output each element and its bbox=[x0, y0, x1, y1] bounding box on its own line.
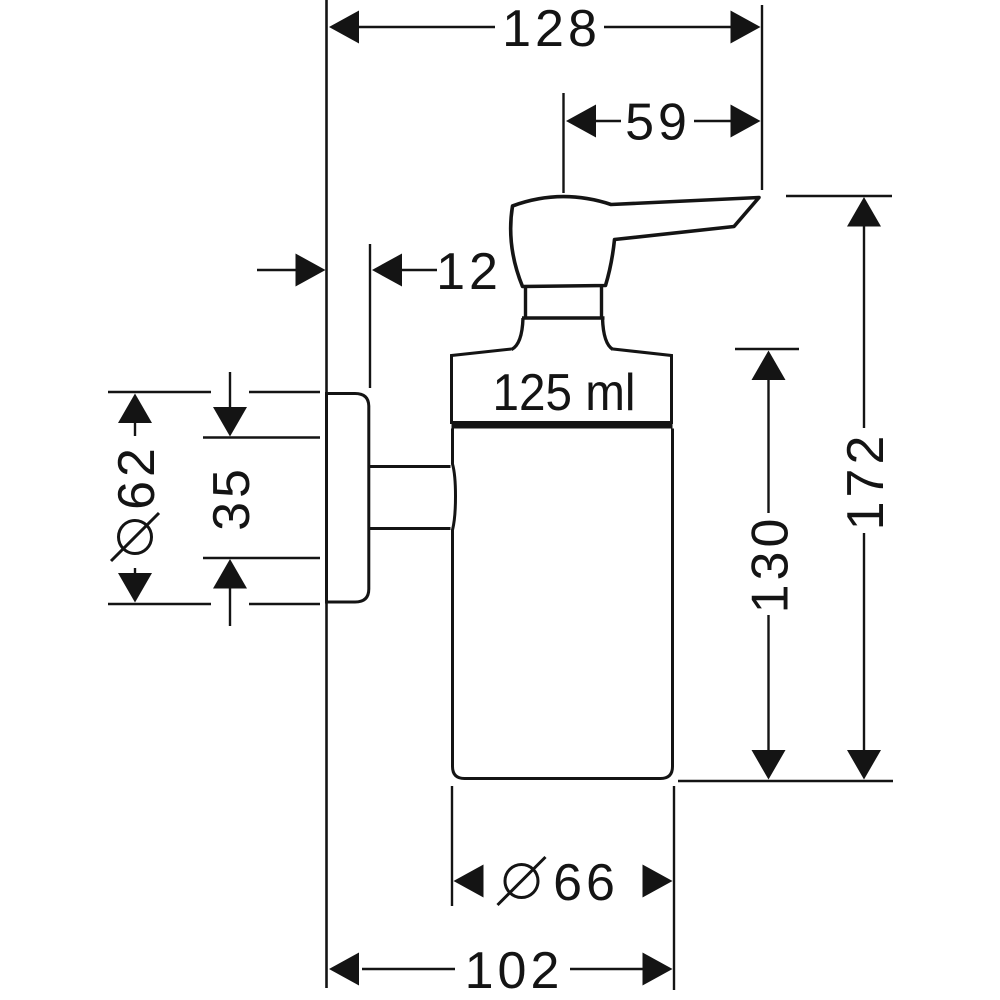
dimension 59 line bbox=[596, 120, 731, 122]
dimension D66 label digits bbox=[553, 854, 619, 912]
holder collar box (125 ml) bbox=[452, 349, 672, 424]
svg-text:59: 59 bbox=[625, 94, 691, 152]
label 125 ml bbox=[493, 364, 636, 422]
dimension 128 right arrow bbox=[731, 11, 761, 44]
wall reference line bbox=[325, 0, 328, 988]
dimension 102 right arrow bbox=[643, 953, 673, 986]
dimension 35 down arrow bbox=[213, 407, 247, 437]
dimension 59 label bbox=[625, 94, 691, 152]
dimension 102 left arrow bbox=[329, 953, 359, 986]
dimension 35 up arrow bbox=[213, 559, 247, 589]
dimension 130 line bbox=[767, 380, 769, 750]
dimension D62 diameter symbol slash bbox=[111, 513, 159, 561]
svg-text:125 ml: 125 ml bbox=[493, 364, 636, 422]
dimension 172 line bbox=[863, 227, 865, 751]
svg-text:130: 130 bbox=[742, 515, 800, 614]
dimension D62 down arrow bbox=[118, 573, 152, 603]
bottle body with holder ring bulge on left edge bbox=[453, 429, 673, 779]
dimension D62 line stubs bbox=[134, 423, 136, 573]
dimension 35 lower leader line bbox=[229, 589, 231, 627]
dimension D66 left arrow bbox=[454, 865, 484, 898]
dimension 128 left arrow bbox=[329, 11, 359, 44]
dimension 12 extension line (plate face) bbox=[369, 244, 371, 388]
dimension 12 right-pointing arrow at wall bbox=[296, 254, 326, 287]
dimension D62 top extension line bbox=[108, 391, 320, 393]
dimension 35 bottom extension line bbox=[203, 557, 320, 559]
dimension 35 upper leader line bbox=[229, 372, 231, 408]
dimension D62 label digits (rotated) bbox=[108, 444, 166, 510]
svg-text:12: 12 bbox=[436, 243, 502, 301]
dimension D62 diameter symbol circle bbox=[119, 521, 152, 554]
dimension 130 top extension line bbox=[735, 348, 799, 350]
dimension 172 label (rotated) bbox=[837, 432, 895, 531]
dimension D66 left extension line bbox=[451, 786, 453, 906]
dimension D62 bottom extension line bbox=[108, 603, 320, 605]
dimension D66 right extension line bbox=[673, 786, 675, 990]
dimension 130 down arrow bbox=[752, 750, 786, 780]
dimension 35 label (rotated) bbox=[203, 465, 261, 531]
dimension 128 label bbox=[502, 0, 601, 58]
dimension 12 left-pointing arrow at plate face bbox=[372, 254, 402, 287]
svg-text:62: 62 bbox=[108, 444, 166, 510]
svg-text:102: 102 bbox=[465, 942, 564, 1000]
pump flare (lower collar) bbox=[512, 318, 614, 350]
svg-text:66: 66 bbox=[553, 854, 619, 912]
dimension 59 right arrow bbox=[731, 105, 761, 138]
dimension 130 up arrow bbox=[752, 351, 786, 381]
pump neck band bbox=[522, 287, 605, 318]
svg-text:128: 128 bbox=[502, 0, 601, 58]
dimension 102 line bbox=[362, 968, 643, 970]
svg-text:172: 172 bbox=[837, 432, 895, 531]
svg-text:35: 35 bbox=[203, 465, 261, 531]
dimension 172 up arrow bbox=[847, 197, 881, 227]
dimension 130 bottom extension line bbox=[678, 780, 893, 782]
dimension 128 extension line (right, spout tip) bbox=[761, 5, 763, 190]
mounting arm bbox=[369, 467, 451, 529]
dimension 172 top extension line bbox=[786, 195, 892, 197]
dimension 128 line bbox=[359, 26, 732, 28]
dimension D66 right arrow bbox=[643, 865, 673, 898]
dimension 59 extension line (pump axis) bbox=[562, 93, 564, 193]
dimension 59 left arrow bbox=[566, 105, 596, 138]
dimension 102 label bbox=[465, 942, 564, 1000]
dimension D66 diameter symbol circle bbox=[505, 865, 538, 898]
wall plate (escutcheon, side view) bbox=[327, 394, 369, 603]
dimension D66 diameter symbol slash bbox=[498, 857, 546, 905]
dimension D62 up arrow bbox=[118, 394, 152, 424]
pump head and lever bbox=[511, 197, 759, 287]
dimension 172 down arrow bbox=[847, 750, 881, 780]
dimension 35 top extension line bbox=[203, 436, 320, 438]
thick separator band bbox=[452, 421, 673, 429]
dimension 12 line bbox=[257, 269, 437, 271]
dimension 12 label bbox=[436, 243, 502, 301]
dimension 130 label (rotated) bbox=[742, 515, 800, 614]
